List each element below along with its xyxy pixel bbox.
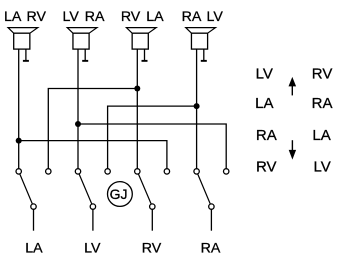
contact 3 xyxy=(75,169,80,174)
contact 1 xyxy=(16,169,21,174)
contact 2 xyxy=(46,169,51,174)
svg-text:GJ: GJ xyxy=(110,186,128,202)
svg-text:LA: LA xyxy=(255,95,273,112)
wire contact 6 to LS1 (horizontal + riser) xyxy=(19,141,167,169)
switch S4 pole xyxy=(209,204,214,209)
contact 5 xyxy=(135,169,140,174)
legend up arrow xyxy=(289,77,297,96)
contact 6 xyxy=(164,169,169,174)
wire contact 4 to LS4 (horizontal + riser) xyxy=(108,106,197,169)
contact 8 xyxy=(224,169,229,174)
switch S1 lever (contact 1 to pole) xyxy=(19,171,34,206)
wire LS4 to contact 7 xyxy=(196,49,198,169)
svg-text:RA: RA xyxy=(256,127,277,144)
svg-text:RA: RA xyxy=(312,95,333,112)
junction dot on LS4 wire xyxy=(194,103,200,109)
switch S2 lever (contact 3 to pole) xyxy=(78,171,93,206)
svg-text:RA LV: RA LV xyxy=(182,9,224,25)
wire LS3 to contact 5 xyxy=(136,49,138,169)
svg-text:LV: LV xyxy=(256,66,273,83)
wire contact 8 to LS2 (horizontal + riser) xyxy=(78,124,226,169)
LS2 second terminal stub xyxy=(82,49,88,62)
loudspeaker LS4 xyxy=(186,28,216,49)
switch S4 pole wire xyxy=(210,207,212,231)
svg-text:RV: RV xyxy=(312,66,333,83)
svg-text:LA: LA xyxy=(25,240,43,256)
svg-text:LA RV: LA RV xyxy=(4,9,47,25)
wire LS1 to contact 1 xyxy=(18,49,20,169)
junction dot on LS3 wire xyxy=(134,86,140,92)
svg-text:RV LA: RV LA xyxy=(121,9,164,25)
switch S3 pole wire xyxy=(151,207,153,231)
loudspeaker LS1 xyxy=(8,28,38,49)
legend down arrow xyxy=(289,140,296,159)
contact 4 xyxy=(105,169,110,174)
svg-text:RA: RA xyxy=(201,240,221,256)
loudspeaker LS3 xyxy=(126,28,156,49)
svg-text:LV: LV xyxy=(313,159,330,176)
wire contact 2 to LS3 (horizontal + riser) xyxy=(48,89,137,169)
switch S3 lever (contact 5 to pole) xyxy=(137,171,152,206)
wire LS2 to contact 3 xyxy=(77,49,79,169)
svg-text:LA: LA xyxy=(312,127,330,144)
relay/device GJ circle xyxy=(108,182,133,207)
switch S1 pole wire xyxy=(33,207,35,231)
switch S3 pole xyxy=(150,204,155,209)
switch S1 pole xyxy=(31,204,36,209)
switch S2 pole xyxy=(90,204,95,209)
LS1 second terminal stub xyxy=(23,49,29,62)
contact 7 xyxy=(194,169,199,174)
loudspeaker LS2 xyxy=(67,28,97,49)
svg-text:LV: LV xyxy=(84,240,101,256)
svg-text:RV: RV xyxy=(142,240,162,256)
svg-text:LV RA: LV RA xyxy=(63,9,105,25)
junction dot on LS1 wire xyxy=(16,138,22,144)
LS3 second terminal stub xyxy=(142,49,148,62)
switch S2 pole wire xyxy=(92,207,94,231)
switch S4 lever (contact 7 to pole) xyxy=(197,171,212,206)
junction dot on LS2 wire xyxy=(75,121,81,127)
svg-text:RV: RV xyxy=(256,159,277,176)
LS4 second terminal stub xyxy=(201,49,207,62)
